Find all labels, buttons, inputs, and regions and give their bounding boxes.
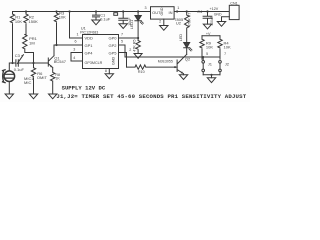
resistor R2 xyxy=(24,12,38,35)
transistor Q1 xyxy=(48,45,66,94)
LED LED2 xyxy=(179,34,192,55)
svg-text:8: 8 xyxy=(105,69,107,73)
svg-text:470R R7: 470R R7 xyxy=(187,13,191,28)
LED LED1 xyxy=(130,12,143,39)
wire VDD drop xyxy=(70,12,83,39)
node LED1 junction xyxy=(137,10,139,12)
svg-text:GP0: GP0 xyxy=(108,36,117,41)
capacitor C3 xyxy=(13,53,49,72)
connector CN1 xyxy=(229,2,239,20)
svg-text:SUPPLY 12V DC: SUPPLY 12V DC xyxy=(62,85,106,92)
node R2 top junction xyxy=(25,10,27,12)
voltage regulator U2 box xyxy=(151,7,184,26)
svg-text:MJE3055: MJE3055 xyxy=(158,60,173,64)
svg-text:1: 1 xyxy=(77,32,79,36)
wire GP5 to R8 xyxy=(119,53,127,68)
svg-text:10K: 10K xyxy=(224,44,231,49)
resistor R3 xyxy=(54,10,66,45)
svg-text:1M: 1M xyxy=(29,41,35,46)
svg-text:GP2: GP2 xyxy=(108,43,117,48)
capacitor C2 xyxy=(119,12,132,26)
svg-text:5: 5 xyxy=(206,52,208,56)
node mic/R1/C3 junction xyxy=(11,62,13,64)
node R3 top junction xyxy=(55,10,57,12)
svg-text:7: 7 xyxy=(121,32,123,36)
svg-text:C3: C3 xyxy=(15,53,21,58)
svg-text:GP1: GP1 xyxy=(85,43,94,48)
svg-text:+V: +V xyxy=(206,32,211,36)
svg-text:5: 5 xyxy=(121,39,123,43)
node PR1 bottom junction xyxy=(32,62,34,64)
svg-text:0.1uF: 0.1uF xyxy=(100,16,111,21)
node VDD drop junction xyxy=(68,10,70,12)
svg-text:2: 2 xyxy=(159,20,161,24)
svg-text:PIC12F683: PIC12F683 xyxy=(80,31,98,35)
capacitor C4 xyxy=(197,9,214,26)
svg-text:47K R5: 47K R5 xyxy=(132,39,136,51)
svg-text:GP3MCLR: GP3MCLR xyxy=(85,61,103,65)
jumper J2 xyxy=(219,52,230,75)
node GP0/LED1/R5 xyxy=(137,37,139,39)
wire GP0 to LED/R5 node xyxy=(119,37,139,39)
node C2 junction xyxy=(122,10,124,12)
node C1 junction xyxy=(95,10,97,12)
ground Q2 emitter xyxy=(179,75,187,80)
resistor R7 xyxy=(185,12,192,43)
svg-text:CN1: CN1 xyxy=(230,2,237,6)
svg-text:3: 3 xyxy=(73,48,75,52)
ground R5 xyxy=(134,54,142,59)
svg-text:1K: 1K xyxy=(55,76,60,80)
svg-text:VDD: VDD xyxy=(85,36,94,41)
svg-text:7: 7 xyxy=(224,52,226,56)
svg-text:150K: 150K xyxy=(29,19,39,24)
svg-text:MIC: MIC xyxy=(24,80,31,85)
svg-text:BC547: BC547 xyxy=(54,59,67,64)
svg-text:J1,J2= TIMER SET 45-60 SECONDS: J1,J2= TIMER SET 45-60 SECONDS PR1 SENSI… xyxy=(56,93,246,100)
node J rail xyxy=(210,74,212,76)
node J1 top xyxy=(202,56,204,58)
node R3/collector junction xyxy=(55,44,57,46)
svg-text:GP4: GP4 xyxy=(85,50,94,55)
ground regulator xyxy=(160,26,168,31)
ground C2 xyxy=(119,24,127,29)
svg-text:R10: R10 xyxy=(138,70,145,74)
svg-text:GND: GND xyxy=(160,7,164,15)
svg-text:GND: GND xyxy=(214,13,222,17)
wire top bus xyxy=(13,11,230,13)
wire J gnd rail xyxy=(203,75,220,78)
wire GP1 row xyxy=(54,44,83,46)
svg-text:6: 6 xyxy=(75,39,77,43)
ground CN1 xyxy=(217,22,225,27)
svg-text:OMIT: OMIT xyxy=(37,75,48,80)
svg-text:LED: LED xyxy=(179,34,183,42)
ground J rail xyxy=(207,78,215,83)
wire +V rail xyxy=(202,35,220,37)
wire chip GND xyxy=(108,69,110,74)
svg-text:GND: GND xyxy=(112,56,116,65)
svg-text:C4: C4 xyxy=(197,9,203,14)
svg-text:U2: U2 xyxy=(176,21,182,26)
op-amp U1 chip box PIC12F683 xyxy=(80,26,118,69)
svg-text:J2: J2 xyxy=(225,61,230,66)
jumper J1 xyxy=(202,52,213,75)
wire GP2 to J1 xyxy=(119,45,221,59)
svg-text:0.1uF: 0.1uF xyxy=(14,67,25,72)
svg-text:GP5: GP5 xyxy=(108,50,117,55)
ground R6 xyxy=(29,94,37,99)
svg-text:IN: IN xyxy=(169,10,173,15)
capacitor C1 xyxy=(93,12,111,22)
svg-text:10K: 10K xyxy=(59,14,66,19)
node Q2 base junction xyxy=(174,66,176,68)
node reg out junction xyxy=(176,10,178,12)
resistor R4 xyxy=(218,36,231,56)
wire GP4/GP3 tie xyxy=(71,53,83,62)
svg-text:2: 2 xyxy=(129,48,131,52)
svg-text:4: 4 xyxy=(73,56,75,60)
svg-text:LED1: LED1 xyxy=(130,20,134,29)
svg-text:10K: 10K xyxy=(15,19,22,24)
resistor R8 xyxy=(127,65,178,74)
svg-text:1: 1 xyxy=(177,6,179,10)
ground chip xyxy=(105,74,113,79)
ground C1 xyxy=(92,20,100,25)
transistor Q2 xyxy=(158,54,191,74)
resistor R5 xyxy=(132,38,140,54)
wire CN1 gnd xyxy=(222,17,230,22)
wire reg gnd xyxy=(163,19,165,25)
resistor R1 xyxy=(10,12,22,64)
ground C4 xyxy=(203,24,211,29)
resistor R6 xyxy=(31,63,47,94)
node C2 label box xyxy=(114,13,118,16)
svg-text:+12V: +12V xyxy=(210,7,219,11)
node R7 junction xyxy=(186,10,188,12)
node C4 junction xyxy=(206,10,208,12)
ground mic xyxy=(5,94,13,99)
svg-text:J1: J1 xyxy=(208,61,213,66)
svg-text:3: 3 xyxy=(145,6,147,10)
potentiometer PR1 xyxy=(17,35,37,64)
resistor R9 xyxy=(200,36,214,60)
ground Q1 emitter xyxy=(49,94,57,99)
svg-text:Q2: Q2 xyxy=(185,56,191,61)
svg-text:10K: 10K xyxy=(206,44,213,49)
microphone MIC1 xyxy=(3,63,35,94)
